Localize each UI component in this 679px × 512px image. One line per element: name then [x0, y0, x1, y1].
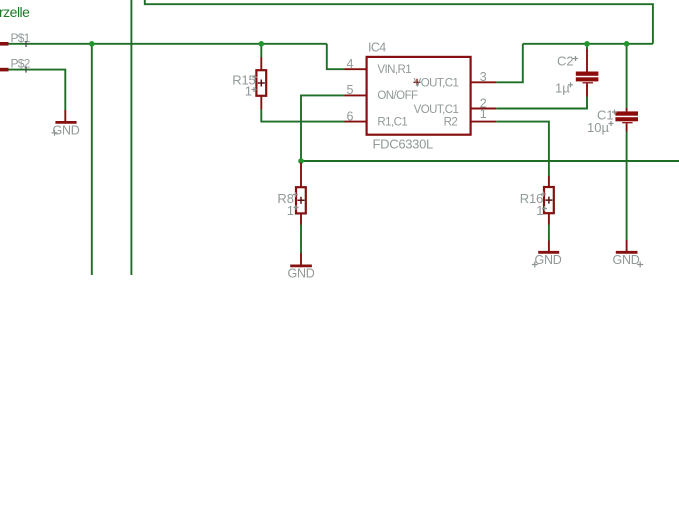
IC U: pin 2 stub: [471, 108, 497, 110]
capacitor C1 pin top: [626, 108, 628, 111]
svg-text:5: 5: [347, 83, 354, 97]
wire C1 bottom vertical: [626, 132, 628, 241]
label R8 name cross: [293, 192, 298, 197]
IC U: pin 3 stub: [471, 81, 497, 83]
svg-text:P$2: P$2: [11, 57, 31, 71]
svg-text:GND: GND: [613, 253, 640, 267]
ground GND (P$2) origin cross: [52, 130, 58, 136]
junction dot C1 top: [624, 41, 630, 47]
wire P$2 to GND: [9, 70, 66, 110]
label C2 name cross: [573, 56, 578, 61]
ground GND (R16) origin cross: [532, 262, 538, 268]
svg-text:FDC6330L: FDC6330L: [373, 137, 434, 152]
value R8 cross: [294, 205, 299, 210]
svg-text:GND: GND: [535, 253, 562, 267]
pin pad P$1: [0, 42, 9, 46]
IC U: pin 6 stub: [345, 121, 367, 123]
capacitor C2 plate 2: [576, 77, 599, 81]
svg-text:1: 1: [287, 203, 294, 218]
svg-text:C2: C2: [557, 54, 574, 69]
IC U: pin 5 stub: [345, 94, 367, 96]
IC U: pin 4 stub: [345, 68, 367, 70]
svg-text:R1,C1: R1,C1: [377, 116, 407, 128]
wire net ON/OFF horizontal: [301, 160, 679, 162]
wire net P$1 main horizontal: [9, 43, 327, 45]
value C1 cross: [609, 121, 614, 126]
label C1 name cross: [612, 110, 617, 115]
junction dot ON/OFF: [298, 158, 304, 164]
svg-text:1µ: 1µ: [555, 80, 570, 95]
resistor R15 pin bottom: [260, 96, 262, 109]
svg-text:VOUT,C1: VOUT,C1: [414, 104, 459, 116]
wire net VOUT right segment: [523, 43, 653, 45]
svg-text:3: 3: [480, 70, 487, 84]
svg-text:4: 4: [347, 57, 354, 71]
wire vertical feed line: [130, 0, 132, 275]
value R16 cross: [542, 206, 547, 211]
svg-text:rzelle: rzelle: [0, 4, 30, 20]
resistor R8 body: [296, 187, 306, 213]
ground GND (P$2) stub: [64, 110, 66, 124]
label R15 name cross: [253, 75, 258, 80]
capacitor C1 plate 2: [615, 117, 638, 121]
IC origin cross: [414, 79, 421, 86]
wire pin2 to C2 bottom: [496, 97, 587, 109]
svg-text:VOUT,C1: VOUT,C1: [414, 78, 459, 90]
ground GND (C1) stub: [626, 240, 628, 254]
resistor R15 pin top: [260, 57, 262, 70]
resistor R15 origin cross: [258, 80, 265, 87]
svg-text:P$1: P$1: [11, 31, 31, 45]
resistor R16 pin bottom: [548, 213, 550, 224]
svg-text:1: 1: [480, 107, 487, 121]
capacitor C1 plate 1: [615, 111, 638, 115]
junction dot R15 top: [259, 41, 265, 47]
wire pin1 to R16: [496, 122, 549, 176]
svg-text:GND: GND: [53, 124, 80, 138]
capacitor C2 plate 1: [576, 72, 599, 76]
svg-text:6: 6: [347, 109, 354, 123]
resistor R8 pin top: [300, 163, 302, 188]
wire R15 top: [260, 44, 262, 57]
junction dot A: [89, 41, 95, 47]
resistor R16 origin cross: [545, 197, 552, 204]
resistor R8 origin cross: [298, 197, 305, 204]
svg-text:GND: GND: [288, 267, 315, 281]
capacitor C1 pin bottom: [626, 123, 628, 131]
svg-text:1: 1: [245, 84, 252, 99]
ground GND (R16) bar: [538, 251, 559, 254]
wire pin3 to VOUT rail: [496, 44, 523, 83]
resistor R16 pin top: [548, 176, 550, 187]
wire vertical from junction A down: [91, 44, 93, 275]
IC U: pin 1 stub: [471, 121, 497, 123]
ground GND (R16) stub: [548, 241, 550, 254]
resistor R15 body: [256, 70, 266, 96]
svg-text:IC4: IC4: [368, 41, 386, 55]
wire top bypass over IC: [145, 0, 653, 44]
pin cross P$2: [25, 67, 27, 73]
capacitor C2 minus tick: [583, 82, 594, 84]
ground GND (P$2) bar: [55, 121, 76, 124]
wire R15 bottom to pin6: [261, 109, 344, 122]
ground GND (C1) origin cross: [637, 262, 643, 268]
wire R16 bottom: [548, 225, 550, 241]
svg-text:R2: R2: [444, 116, 458, 128]
svg-text:10µ: 10µ: [587, 120, 609, 135]
resistor R8 pin bottom: [300, 213, 302, 224]
value R15 cross: [252, 87, 257, 92]
capacitor C1 minus tick: [622, 122, 632, 124]
wire riser down to pin 4: [327, 44, 345, 69]
ground GND (C1) bar: [616, 251, 638, 254]
capacitor C2 pin bottom: [586, 83, 588, 96]
pin cross P$1: [25, 41, 27, 47]
svg-text:1: 1: [536, 203, 543, 218]
wire C2 top stub: [586, 44, 588, 49]
IC U1 body FDC6330L: [367, 57, 471, 135]
pin pad P$2: [0, 68, 9, 72]
svg-text:VIN,R1: VIN,R1: [377, 64, 411, 76]
value C2 cross: [568, 82, 573, 87]
resistor R16 body: [544, 187, 554, 213]
wire C1 top vertical: [626, 44, 628, 108]
junction dot C2 top: [584, 41, 590, 47]
wire R8 bottom: [300, 225, 302, 254]
capacitor C2 pin top: [586, 49, 588, 72]
ground GND (R8) stub: [300, 253, 302, 267]
svg-text:ON/OFF: ON/OFF: [377, 90, 418, 102]
ground GND (R8) bar: [290, 264, 312, 267]
label R16 name cross: [541, 192, 546, 197]
wire pin5 ON/OFF: [301, 95, 345, 161]
